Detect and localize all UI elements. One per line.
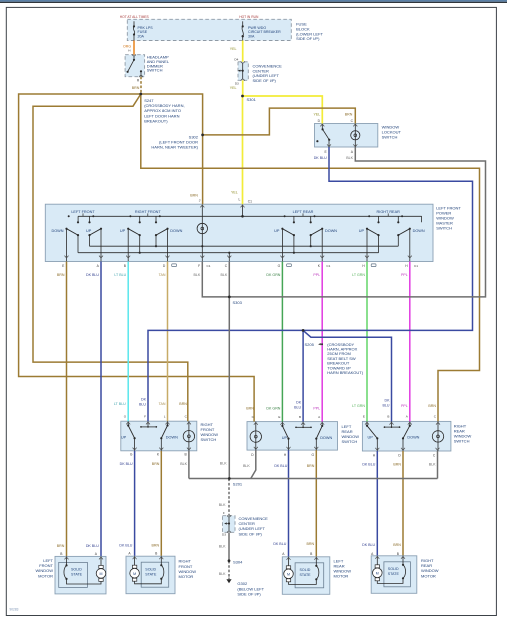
svg-text:LT GRN: LT GRN [352,404,365,408]
svg-text:M: M [100,572,103,576]
wire DK BLU S205 drop to left rear switch pin B [302,330,304,421]
wire BLK lower convenience center to S304 [228,532,230,561]
right front window switch box [121,421,197,451]
master switch F pin drop [201,246,203,261]
right rear window switch internals [437,421,439,451]
svg-text:BRN: BRN [393,543,401,547]
master switch internal top bus [78,215,422,217]
master switch illumination lamp [201,205,203,247]
wire DK BLU left rear switch pin H to left rear motor pin A [288,450,290,557]
svg-text:STATE: STATE [71,573,83,577]
svg-text:BLK: BLK [429,463,436,467]
svg-text:C1: C1 [414,264,418,268]
left front window motor [55,556,106,594]
wire YEL convenience center to S301 [242,80,244,96]
svg-text:LEFT REAR: LEFT REAR [293,210,314,214]
svg-text:DK BLU: DK BLU [314,156,327,160]
wire DK BLU S205 jog to right rear switch pin B [303,330,391,421]
svg-text:BRN: BRN [57,273,65,277]
svg-text:UP: UP [368,436,374,440]
svg-text:DK BLU: DK BLU [362,543,375,547]
svg-text:F: F [144,414,146,418]
left rear window switch box [247,422,338,451]
wire BLK master pin F to S303 [202,262,229,297]
node S205 [302,329,305,332]
wire TAN master pin D to right front switch pin L [167,262,169,422]
svg-text:TAN: TAN [159,273,166,277]
node S303 [228,296,231,299]
wire LT GRN master pin H to right rear switch pin E [366,262,368,422]
convenience center box (lower) [223,516,236,533]
breaker lower terminal [242,35,244,37]
left rear window switch internals [255,422,257,451]
wire BLK right rear switch pin C to bus [437,451,439,479]
svg-text:BRN: BRN [190,193,198,197]
svg-text:BRN: BRN [307,542,315,546]
svg-text:PPL: PPL [401,273,408,277]
svg-text:SOLID: SOLID [300,568,311,572]
svg-text:BLK: BLK [219,503,226,507]
svg-text:DOWN: DOWN [166,436,178,440]
right front window motor [126,556,175,594]
svg-text:SOLID: SOLID [71,568,82,572]
svg-text:BRN: BRN [57,544,65,548]
wire BLK left rear switch pin D to bus [251,450,256,478]
svg-text:UP: UP [120,229,126,233]
svg-text:DKBLU: DKBLU [383,398,391,407]
svg-text:DK GRN: DK GRN [266,406,280,410]
wire BLK S304 to ground G302 (dashed) [228,561,230,578]
svg-text:BLK: BLK [219,572,226,576]
right rear window motor [371,556,417,594]
svg-text:STATE: STATE [388,572,400,576]
svg-text:UP: UP [86,229,92,233]
dimmer switch contacts [133,56,135,60]
node S301 [241,95,244,98]
wire BRN right front switch pin K to right front motor pin B [160,451,162,556]
svg-text:UP: UP [274,229,280,233]
top banner band [0,0,507,2]
svg-text:B: B [387,415,389,419]
svg-text:D3: D3 [222,532,226,536]
svg-text:PPL: PPL [401,404,408,408]
master switch internal bus 1 [90,245,399,247]
svg-text:S303: S303 [233,300,243,305]
wire DK BLU master pin A to left front motor pin A [100,262,102,557]
svg-text:DK BLU: DK BLU [119,544,132,548]
svg-text:BLK: BLK [220,461,227,465]
svg-text:DOWN: DOWN [325,229,337,233]
svg-text:BRN: BRN [428,404,436,408]
svg-text:DOWN: DOWN [407,436,419,440]
wire DK BLU right front switch pin G to right front motor pin A [134,451,136,556]
wire BRN S247 left branch to left rear switch pin C [19,94,255,422]
wire BRN right rear switch pin D to right rear motor pin B [402,451,404,556]
svg-text:BRN: BRN [132,86,140,90]
svg-text:S301: S301 [247,97,257,102]
wire BLK right front switch pin B to bus [188,451,190,479]
svg-text:DK BLU: DK BLU [362,463,375,467]
wire BRN master pin E to left front motor pin B [66,262,68,557]
master switch internal bus 2 [78,252,378,254]
fuse PRK LPS 20A [133,21,135,40]
headlamp and panel dimmer switch box [125,55,145,77]
svg-text:BRN: BRN [393,463,401,467]
wire BRN dimmer switch to S247 (dashed) [140,77,142,94]
svg-text:LT BLU: LT BLU [114,273,126,277]
fuse block (dashed) [127,19,291,40]
svg-text:BRN: BRN [179,402,187,406]
svg-text:DKBLU: DKBLU [294,401,302,410]
svg-text:B: B [299,415,301,419]
svg-text:SOLID: SOLID [388,567,399,571]
svg-text:STATE: STATE [300,573,312,577]
svg-text:L: L [238,198,240,202]
svg-text:BRN: BRN [345,112,353,116]
svg-text:M: M [133,572,136,576]
svg-text:E: E [278,415,280,419]
svg-text:DK BLU: DK BLU [273,542,286,546]
svg-text:PPL: PPL [313,406,320,410]
svg-text:HOT AT ALL TIMES: HOT AT ALL TIMES [120,15,150,19]
svg-text:BLK: BLK [221,273,228,277]
convenience center connector symbol (top) [242,63,244,79]
wire BLK master pin C through S303 to S201 [228,262,230,479]
svg-text:PPL: PPL [313,273,320,277]
wire PPL master pin K to left rear switch pin A [321,262,323,422]
lockout switch contacts [321,124,323,129]
svg-text:H: H [128,49,130,53]
svg-text:G: G [312,453,315,457]
svg-text:M: M [287,572,290,576]
svg-text:DKBLU: DKBLU [139,397,147,406]
svg-text:M: M [376,571,379,575]
wire YEL breaker to convenience center [242,41,244,62]
svg-text:C1: C1 [248,200,252,204]
wire DK BLU right rear switch pin H to right rear motor pin A [376,451,378,556]
ground G302 symbol [228,578,230,580]
svg-text:S304: S304 [233,559,243,564]
svg-text:BRN: BRN [307,464,315,468]
svg-text:DK BLU: DK BLU [120,462,133,466]
svg-text:C1: C1 [326,264,330,268]
svg-text:TAN: TAN [159,402,166,406]
left front power window master switch box [45,204,433,261]
circuit breaker PWR WDO 30A [242,21,244,40]
wire YEL S301 to lockout switch pin D [243,96,323,124]
svg-text:BRN: BRN [152,462,160,466]
svg-text:YEL: YEL [230,86,237,90]
wire PPL master pin H to right rear switch pin A [409,262,411,422]
svg-text:YEL: YEL [314,112,321,116]
svg-text:D3: D3 [235,82,239,86]
junction of YEL pin L with bus [241,215,244,218]
svg-text:E: E [363,415,365,419]
right rear window switch box [362,421,451,451]
wire DK GRN master pin G to left rear switch pin E [281,262,283,422]
node S302 [201,134,204,137]
svg-text:YEL: YEL [230,47,237,51]
svg-text:UP: UP [121,436,127,440]
master switch C pin drop [228,253,230,262]
wire BRN S247 down branch to right rear switch pin C [141,94,480,421]
svg-text:L: L [164,414,166,418]
svg-text:BLK: BLK [219,544,226,548]
svg-text:S205: S205 [304,342,314,347]
svg-text:C1: C1 [207,264,211,268]
window lockout switch box [315,124,378,148]
svg-text:SOLID: SOLID [145,567,156,571]
svg-text:G: G [278,264,281,268]
wire ORG fuse to dimmer switch [133,41,135,55]
svg-text:F: F [223,511,225,515]
svg-text:BLK: BLK [180,462,187,466]
svg-text:BLK: BLK [194,273,201,277]
svg-text:90283: 90283 [10,608,19,612]
svg-text:DK GRN: DK GRN [266,273,280,277]
svg-text:F: F [198,264,200,268]
left rear window motor [282,557,330,595]
wire BRN left rear switch pin G to left rear motor pin B [315,450,317,557]
convenience center box (top) [238,62,248,81]
wire BLK S201 to lower convenience center (dashed) [228,479,230,516]
svg-text:G: G [130,452,133,456]
wire BRN S302 to lockout switch pin C [203,108,356,135]
svg-text:YEL: YEL [231,191,238,195]
svg-text:UP: UP [359,229,365,233]
svg-text:DOWN: DOWN [320,436,332,440]
svg-text:LEFT FRONT: LEFT FRONT [71,210,95,214]
svg-text:DOWN: DOWN [413,229,425,233]
svg-text:RIGHT FRONT: RIGHT FRONT [135,210,162,214]
svg-text:BRN: BRN [152,544,160,548]
svg-text:DK BLU: DK BLU [274,464,287,468]
lockout switch lamp [351,131,360,140]
svg-text:STATE: STATE [145,572,157,576]
svg-text:DK BLU: DK BLU [86,544,99,548]
svg-text:DK BLU: DK BLU [86,273,99,277]
wire BRN S247 right branch through S302 to master switch pin J [141,94,203,204]
svg-text:DOWN: DOWN [51,229,63,233]
svg-text:BLK: BLK [346,156,353,160]
convenience center connector symbol (lower) [228,517,230,531]
svg-text:UP: UP [282,436,288,440]
svg-text:BRN: BRN [246,406,254,410]
svg-text:S201: S201 [233,481,243,486]
wire BLK lockout pin A to S303 via right side [229,147,485,297]
node S247 [139,93,142,96]
svg-text:RIGHT REAR: RIGHT REAR [377,210,401,214]
node S304 [228,559,231,562]
wire BRN S247 diagonal branch to right front switch pin C [33,94,188,421]
wire YEL S301 to master switch pin L [242,96,244,204]
wire DK BLU lockout pin E loop to right front switch pin F [148,147,473,421]
svg-text:LT BLU: LT BLU [114,402,126,406]
svg-text:D4: D4 [234,57,238,61]
wire LT BLU master pin B to right front switch pin G [127,262,129,422]
wire BLK ground bus at S201 [189,478,438,480]
svg-text:HOT IN RUN: HOT IN RUN [239,15,259,19]
svg-text:DOWN: DOWN [170,229,182,233]
svg-text:LT GRN: LT GRN [352,273,365,277]
svg-text:BLK: BLK [243,464,250,468]
node S201 [228,477,231,480]
right front window switch internals [188,421,190,451]
